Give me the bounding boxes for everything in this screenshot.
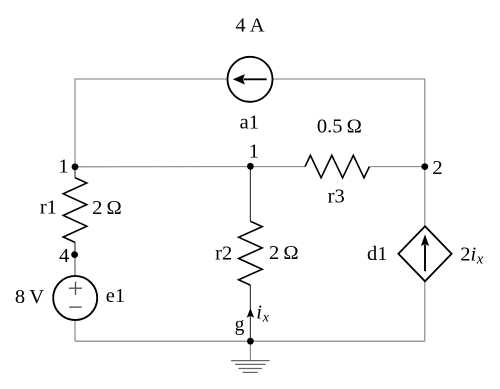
wire middle from node 1 left to resistor r3: [75, 166, 305, 168]
voltage source e1: [53, 276, 97, 320]
svg-text:r3: r3: [328, 185, 345, 207]
node 4 junction dot: [71, 251, 78, 258]
svg-text:1: 1: [58, 156, 68, 178]
node g junction dot: [247, 338, 254, 345]
current arrow ix on r2 branch: [247, 308, 254, 318]
svg-text:2: 2: [432, 157, 442, 179]
svg-text:4: 4: [59, 245, 69, 267]
wire top-left from node 1 up and right to current source: [75, 79, 228, 167]
svg-text:r2: r2: [215, 242, 232, 264]
svg-text:d1: d1: [367, 243, 388, 265]
wire from resistor r3 to node 2: [369, 166, 424, 168]
wire dependent source d1 down to bottom rail: [424, 281, 426, 341]
svg-text:a1: a1: [240, 112, 259, 134]
wire top-right from current source to right rail down to node 2: [273, 79, 425, 167]
wire resistor r2 down to node g: [249, 285, 251, 341]
ground: [231, 341, 270, 372]
wire node 4 to voltage source e1 top: [74, 255, 76, 277]
svg-text:8 V: 8 V: [15, 286, 44, 308]
svg-text:g: g: [235, 315, 245, 336]
svg-text:4 A: 4 A: [235, 15, 264, 37]
svg-text:1: 1: [249, 140, 259, 162]
node 1 center junction dot: [247, 163, 254, 170]
dependent source d1 (diamond): [398, 226, 451, 281]
wire resistor r1 to node 4 to voltage source e1: [74, 242, 76, 254]
node 1 left junction dot: [72, 163, 79, 170]
node 2 junction dot: [421, 163, 428, 170]
wire node 2 down to dependent source d1: [424, 167, 426, 227]
wire bottom rail: [75, 340, 425, 342]
svg-text:e1: e1: [106, 285, 125, 307]
svg-text:2 Ω: 2 Ω: [92, 197, 122, 219]
wire node 1 left down to resistor r1: [74, 167, 76, 178]
current source a1: [228, 57, 273, 102]
svg-text:2 Ω: 2 Ω: [269, 242, 299, 264]
wire voltage source e1 down to bottom rail: [74, 320, 76, 341]
wire node 1 center down to resistor r2: [249, 166, 251, 221]
resistor r1: [63, 178, 87, 243]
resistor r2: [239, 221, 263, 285]
svg-text:0.5 Ω: 0.5 Ω: [317, 115, 362, 137]
resistor r3: [305, 155, 369, 177]
svg-text:r1: r1: [40, 197, 57, 219]
